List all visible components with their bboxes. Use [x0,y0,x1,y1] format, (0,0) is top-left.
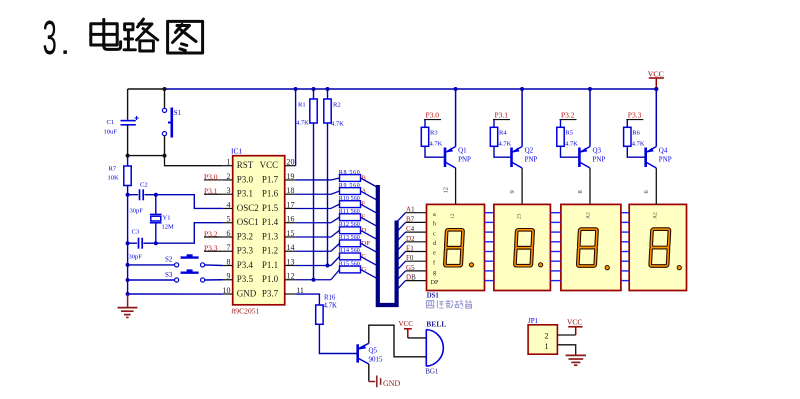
svg-text:4.7K: 4.7K [565,141,578,148]
resistor R7 [127,156,129,166]
IC pin 6 P3.2 [223,236,233,238]
transistor Q1 PNP [444,148,447,168]
svg-text:6: 6 [227,229,231,238]
net label segment G5 [397,271,406,281]
svg-text:G5: G5 [406,264,415,272]
svg-text:12: 12 [450,213,456,219]
IC pin 5 OSC1 [223,222,233,224]
svg-text:R14 560: R14 560 [339,248,360,254]
svg-text:P1.7: P1.7 [262,174,279,184]
resistor R16 4.7K [316,305,323,324]
svg-text:8: 8 [227,257,231,266]
button S3 [126,278,130,282]
svg-text:PNP: PNP [659,156,672,164]
net label P3.2 [204,236,223,238]
IC U1 89C2051 body [233,156,285,305]
wire base Q1 [425,146,445,157]
IC pin 14 P1.2 [285,250,296,252]
svg-text:2: 2 [227,172,231,181]
IC pin 11 P3.7 [285,293,296,295]
svg-text:S1: S1 [174,109,182,117]
svg-text:4.7K: 4.7K [632,141,645,148]
capacitor C2 [126,193,130,197]
svg-text:BG1: BG1 [425,368,439,376]
svg-text:C3: C3 [132,229,140,236]
svg-text:C4: C4 [406,225,415,233]
net label segment C4 [397,232,406,242]
net label segment E1 [397,252,406,262]
svg-text:OSC2: OSC2 [237,203,259,213]
svg-text:8: 8 [577,190,584,193]
buzzer BG1 [426,330,443,367]
svg-text:A1: A1 [406,206,415,214]
resistor R9 560 [296,193,331,195]
svg-text:4.7K: 4.7K [430,141,443,148]
svg-text:Q1: Q1 [458,147,467,155]
svg-text:PNP: PNP [458,156,471,164]
resistor R5 4.7K [560,120,562,128]
svg-text:9015: 9015 [369,356,384,364]
svg-text:R6: R6 [632,130,640,137]
svg-text:P3.0: P3.0 [426,110,440,119]
display digit 1 DP [469,263,473,267]
svg-text:VCC: VCC [567,318,582,327]
svg-text:2: 2 [545,332,549,341]
svg-text:DB: DB [406,274,416,282]
net label P3.0 [204,179,223,181]
resistor R4 4.7K [493,120,495,128]
resistor R2 [326,87,330,91]
svg-text:P1.2: P1.2 [262,246,278,256]
capacitor C3 [126,241,130,245]
svg-text:4.7K: 4.7K [499,141,512,148]
svg-text:F0: F0 [406,254,414,262]
svg-text:E1: E1 [406,245,414,253]
wire collector Q1 to display [455,168,457,204]
svg-text:Q4: Q4 [659,147,668,155]
svg-text:17: 17 [287,200,295,209]
svg-text:OSC1: OSC1 [237,217,259,227]
bus wires between displays [485,212,494,214]
title char DIAN [91,19,121,49]
svg-text:DS1: DS1 [427,293,440,300]
svg-text:P3.2: P3.2 [204,229,218,238]
svg-text:R5: R5 [566,130,574,137]
wire S1 to RST pin1 [165,156,223,166]
svg-text:19: 19 [287,172,295,181]
svg-text:P3.3: P3.3 [628,110,642,119]
svg-text:12: 12 [442,187,449,194]
svg-text:5: 5 [227,215,231,224]
IC pin 8 P3.4 [223,264,233,266]
svg-text:30pF: 30pF [130,208,144,215]
svg-text:GND: GND [237,288,257,298]
svg-text:PNP: PNP [593,156,606,164]
svg-text:1: 1 [545,342,549,351]
wire Y1 to OSC1 [154,241,158,245]
svg-text:P1.6: P1.6 [262,189,279,199]
svg-text:S3: S3 [165,271,173,279]
svg-text:P3.7: P3.7 [262,288,279,298]
svg-text:10K: 10K [108,175,120,182]
svg-text:10uF: 10uF [104,129,118,136]
svg-text:4: 4 [227,200,231,209]
svg-text:R15 560: R15 560 [339,261,360,267]
title text "3." [43,12,67,66]
svg-text:30pF: 30pF [129,254,143,261]
svg-text:R2: R2 [333,102,341,109]
svg-text:D2: D2 [406,235,415,243]
display digit 3 7-segment [578,229,597,266]
IC pin 13 P1.1 [285,264,296,266]
svg-text:RST: RST [237,160,254,170]
resistor R14 560 [296,264,331,266]
svg-text:4.7K: 4.7K [296,120,309,127]
svg-text:A2: A2 [652,212,658,219]
svg-text:4.7K: 4.7K [331,121,344,128]
display digit 1 body [427,204,485,290]
net label segment DB [397,281,406,291]
crystal Y1 [155,195,157,214]
IC pin 16 P1.4 [285,222,296,224]
svg-text:14: 14 [287,243,295,252]
transistor Q4 PNP [644,148,647,168]
svg-text:9: 9 [509,190,516,193]
svg-text:3: 3 [227,186,231,195]
svg-text:P3.1: P3.1 [237,189,253,199]
svg-text:e: e [433,250,436,257]
wire collector Q4 to display [655,168,657,204]
display digit 3 body [561,204,621,290]
wire to bus [361,256,378,266]
resistor R1 [312,87,316,91]
svg-text:P3.4: P3.4 [237,260,254,270]
svg-text:1: 1 [227,158,231,167]
wire base Q3 [561,146,580,157]
resistor R12 560 [296,236,331,238]
svg-text:R13 560: R13 560 [339,235,360,241]
svg-text:12M: 12M [162,224,175,231]
svg-text:VCC: VCC [399,320,414,328]
svg-text:g: g [433,269,436,276]
svg-text:R8 560: R8 560 [339,170,360,176]
svg-text:3: 3 [43,12,57,66]
net label segment A1 [397,213,406,223]
svg-text:R4: R4 [499,130,507,137]
wire VCC pin 20 [295,89,297,166]
wire to bus [361,269,378,279]
svg-text:R16: R16 [324,295,336,302]
button S2 [126,263,130,267]
svg-text:P1.5: P1.5 [262,203,279,213]
transistor Q2 PNP [510,148,513,168]
IC pin 4 OSC2 [223,207,233,209]
svg-text:C1: C1 [107,119,115,126]
svg-text:A2: A2 [585,212,591,219]
IC pin 2 P3.0 [223,179,233,181]
title char LU [124,19,158,51]
display digit 2 7-segment [515,230,533,266]
svg-text:P3.1: P3.1 [204,187,218,196]
net label segment B7 [397,222,406,232]
bus segment wire [378,185,397,305]
IC pin 19 P1.7 [285,179,296,181]
switch S1 [164,89,166,108]
resistor R6 4.7K [626,120,628,128]
svg-text:13: 13 [287,257,295,266]
svg-text:9: 9 [227,272,231,281]
wire to bus [361,243,378,253]
svg-text:S2: S2 [165,256,173,264]
wire collector Q3 to display [589,168,591,204]
IC pin 17 P1.5 [285,207,296,209]
title char TU [168,21,203,53]
svg-text:Q5: Q5 [369,347,378,355]
VCC top right [649,78,664,89]
IC pin 18 P1.6 [285,193,296,195]
svg-text:VCC: VCC [648,70,664,79]
svg-text:16: 16 [287,215,295,224]
svg-text:P3.3: P3.3 [204,244,218,253]
IC pin 10 GND [223,293,233,295]
svg-text:15: 15 [287,229,295,238]
svg-text:20: 20 [287,158,295,167]
wire Q5 collector loop to buzzer [369,325,427,357]
display digit 3 DP [605,266,609,270]
wire base Q2 [494,146,512,157]
ground left [127,294,129,307]
IC pin 7 P3.3 [223,250,233,252]
display digit 2 DP [539,263,543,267]
svg-text:P1.0: P1.0 [262,274,279,284]
display digit 4 7-segment [650,229,669,266]
svg-text:10: 10 [223,286,231,295]
IC pin 20 VCC [285,165,296,167]
wire left vertical [127,195,129,294]
transistor Q5 9015 [356,344,359,362]
svg-text:C2: C2 [140,182,148,189]
resistor R13 560 [296,250,331,252]
wire base Q4 [627,146,645,157]
wire to bus [361,204,378,214]
svg-text:P1.4: P1.4 [262,217,279,227]
svg-text:P1.1: P1.1 [262,260,278,270]
svg-text:4.7K: 4.7K [324,303,337,310]
svg-text:Q3: Q3 [593,147,602,155]
wire VCC to buzzer top pin [408,337,427,339]
wire top VCC rail [128,88,165,90]
ground at JP1 [566,355,586,365]
resistor R8 560 [296,179,331,181]
wire collector Q2 to display [521,168,523,204]
net label P3.3 [204,250,223,252]
wire C2 to OSC2 [154,193,158,197]
svg-text:R3: R3 [430,130,438,137]
capacitor C1 [127,89,129,120]
svg-text:a: a [433,211,436,218]
net label segment D2 [397,242,406,252]
net label P3.1 [204,193,223,195]
svg-text:P1.3: P1.3 [262,231,279,241]
svg-text:Q2: Q2 [525,147,534,155]
wire C1/S1 bottom row [128,155,165,157]
svg-text:R1: R1 [298,102,306,109]
svg-text:R10 560: R10 560 [339,196,360,202]
wire JP1 pin 1 to ground [557,345,575,356]
transistor Q3 PNP [578,148,581,168]
resistor R10 560 [296,207,331,209]
wire to bus [361,217,378,227]
IC pin 15 P1.3 [285,236,296,238]
svg-text:89C2051: 89C2051 [232,307,260,316]
net label segment F0 [397,261,406,271]
svg-text:P3.0: P3.0 [237,174,254,184]
wire GND row [126,292,130,296]
svg-text:18: 18 [287,186,295,195]
IC pin 3 P3.1 [223,193,233,195]
ground GND at Q5 [369,376,381,388]
svg-text:IC1: IC1 [231,147,243,156]
svg-text:c: c [433,230,436,237]
resistor R3 4.7K [424,120,426,128]
wire Q5 emitter [368,364,370,382]
svg-text:PNP: PNP [525,156,538,164]
label four-digit display (CJK drawn) [427,300,472,308]
svg-text:b: b [433,221,436,228]
svg-text:B7: B7 [406,215,415,223]
display digit 4 body [629,204,686,290]
connector JP1 [528,325,557,354]
svg-text:P3.1: P3.1 [495,110,509,119]
svg-text:P3.3: P3.3 [237,246,254,256]
svg-text:GND: GND [383,379,401,388]
IC pin 1 RST [223,165,233,167]
display digit 4 DP [677,266,681,270]
display digit 1 7-segment [445,230,463,266]
svg-text:R7: R7 [109,166,117,173]
svg-text:P3.2: P3.2 [561,110,575,119]
wire JP1 pin 2 to VCC [557,334,575,336]
svg-text:R11 560: R11 560 [339,209,360,215]
svg-text:23: 23 [517,213,523,219]
svg-text:R9 560: R9 560 [339,183,360,189]
wire to bus [361,191,378,201]
svg-text:DP: DP [431,279,439,286]
svg-text:BELL: BELL [426,320,446,329]
wire P3.7 pin 11 to R16 [296,294,320,305]
resistor R11 560 [296,222,331,224]
svg-text:R12 560: R12 560 [339,222,360,228]
svg-text:VCC: VCC [260,160,279,170]
svg-text:P3.0: P3.0 [204,172,218,181]
svg-text:P3.5: P3.5 [237,274,254,284]
wire to bus [361,178,378,188]
svg-text:P3.2: P3.2 [237,231,253,241]
wire to bus [361,230,378,240]
svg-text:12: 12 [287,272,295,281]
IC pin 12 P1.0 [285,279,296,281]
resistor R15 560 [296,279,331,281]
wire R16 to Q5 base [319,324,357,353]
display digit 2 body [494,204,551,290]
svg-text:JP1: JP1 [528,317,539,325]
svg-text:Y1: Y1 [163,215,171,222]
IC pin 9 P3.5 [223,279,233,281]
svg-text:7: 7 [227,243,231,252]
